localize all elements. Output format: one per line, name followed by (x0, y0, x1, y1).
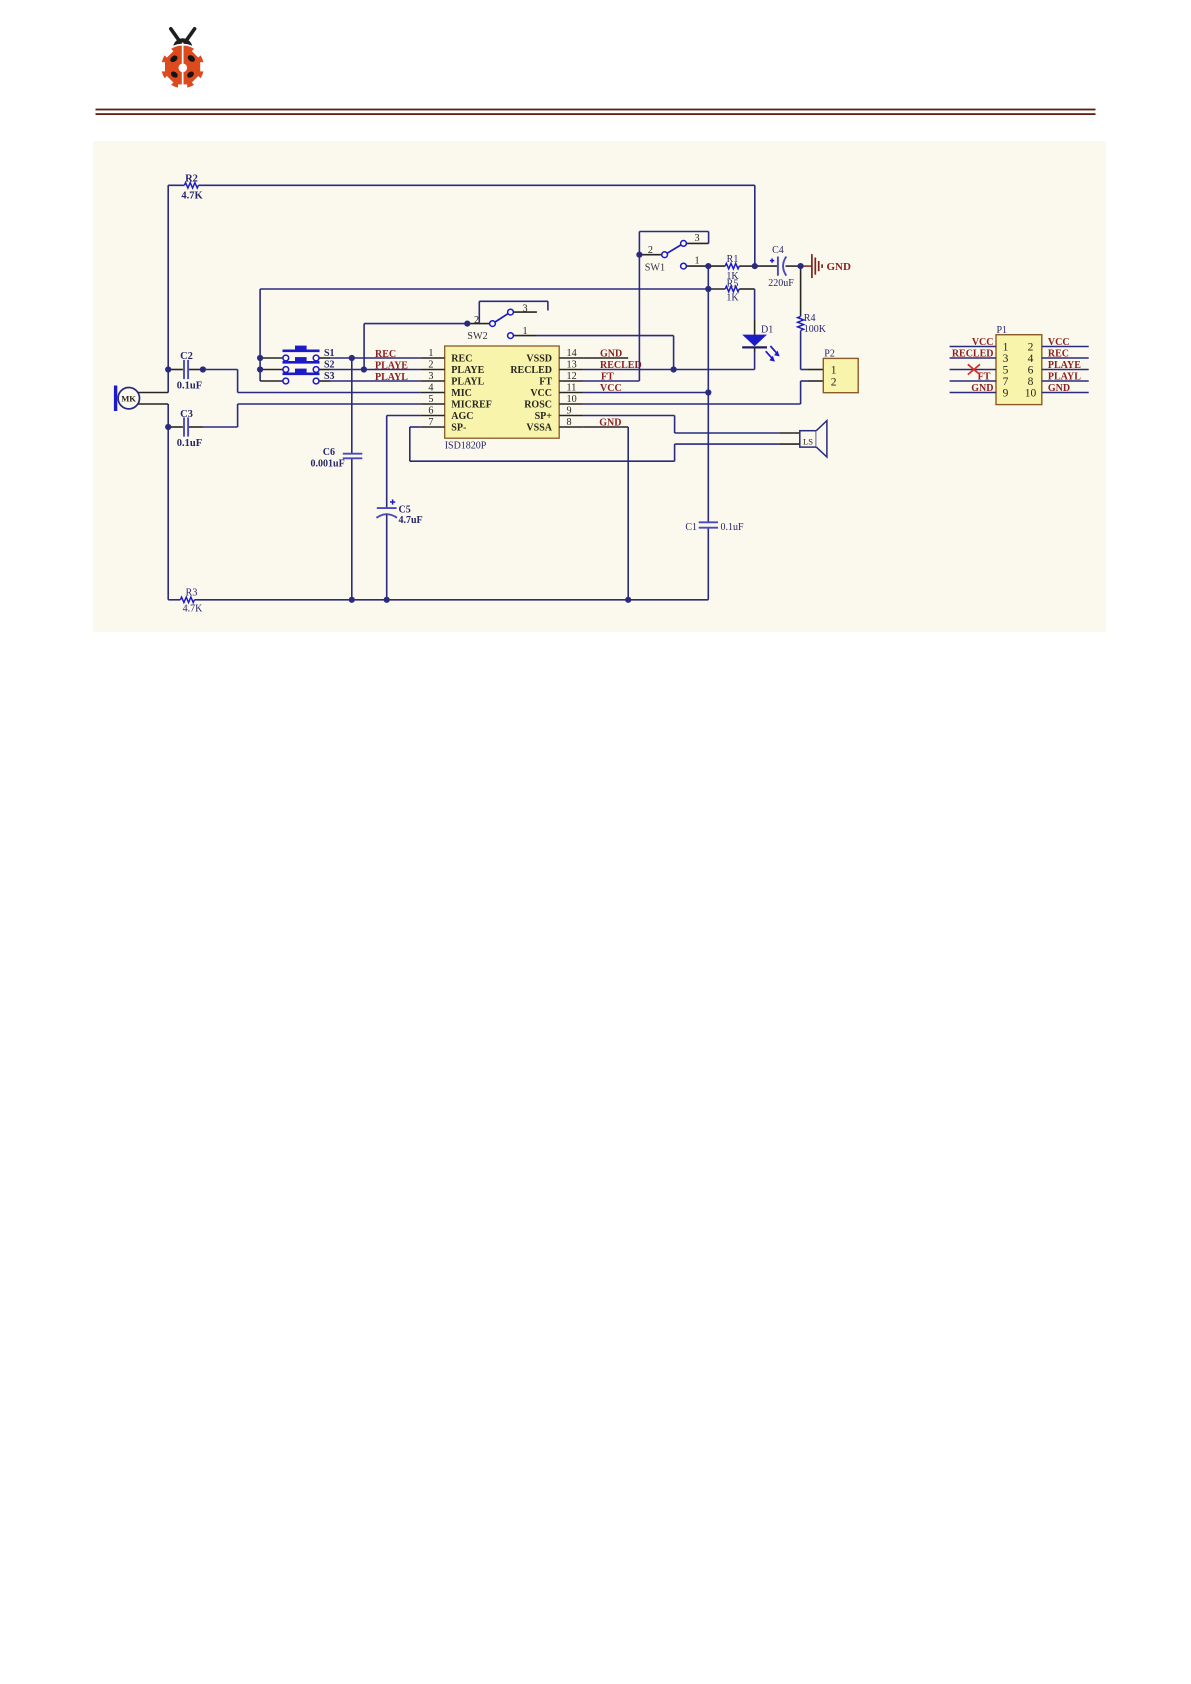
svg-text:6: 6 (428, 406, 433, 417)
svg-text:P1: P1 (997, 325, 1008, 336)
svg-text:R5: R5 (727, 279, 739, 290)
svg-text:7: 7 (428, 417, 433, 428)
svg-text:VSSA: VSSA (526, 423, 552, 434)
svg-text:C1: C1 (685, 522, 697, 533)
svg-text:1: 1 (1003, 341, 1009, 353)
svg-text:13: 13 (567, 360, 577, 371)
svg-text:SP-: SP- (451, 423, 466, 434)
svg-text:14: 14 (567, 348, 577, 359)
svg-text:7: 7 (1003, 376, 1009, 388)
svg-text:1: 1 (831, 364, 837, 376)
svg-text:R1: R1 (727, 254, 739, 265)
svg-text:11: 11 (567, 383, 577, 394)
svg-text:FT: FT (601, 372, 614, 383)
svg-text:10: 10 (567, 394, 577, 405)
svg-text:C5: C5 (399, 504, 411, 515)
svg-text:REC: REC (375, 349, 396, 360)
svg-text:MK: MK (121, 394, 136, 404)
svg-text:C6: C6 (323, 447, 335, 458)
svg-text:6: 6 (1028, 364, 1034, 376)
svg-text:MIC: MIC (451, 388, 472, 399)
svg-text:3: 3 (694, 233, 699, 244)
svg-text:2: 2 (831, 376, 837, 388)
svg-text:VCC: VCC (530, 388, 552, 399)
svg-text:3: 3 (1003, 353, 1009, 365)
svg-text:4.7uF: 4.7uF (399, 515, 423, 526)
svg-text:MICREF: MICREF (451, 400, 492, 411)
svg-text:LS: LS (803, 437, 813, 447)
svg-text:C2: C2 (180, 351, 193, 362)
svg-text:10: 10 (1025, 387, 1037, 399)
svg-text:3: 3 (522, 303, 527, 314)
svg-text:2: 2 (1028, 341, 1034, 353)
svg-text:0.1uF: 0.1uF (177, 381, 202, 392)
svg-text:P2: P2 (824, 349, 835, 360)
svg-text:220uF: 220uF (768, 278, 794, 289)
svg-text:2: 2 (428, 360, 433, 371)
svg-text:4.7K: 4.7K (183, 604, 204, 615)
svg-text:AGC: AGC (451, 411, 473, 422)
svg-text:5: 5 (428, 394, 433, 405)
svg-text:1: 1 (694, 256, 699, 267)
svg-text:0.1uF: 0.1uF (177, 438, 202, 449)
svg-text:100K: 100K (804, 324, 827, 335)
svg-text:PLAYL: PLAYL (451, 377, 484, 388)
svg-text:R2: R2 (185, 174, 198, 185)
svg-text:C3: C3 (180, 409, 193, 420)
svg-text:9: 9 (1003, 387, 1009, 399)
svg-text:9: 9 (567, 406, 572, 417)
svg-text:SW2: SW2 (467, 331, 487, 342)
svg-text:FT: FT (539, 377, 552, 388)
svg-text:GND: GND (827, 261, 852, 273)
svg-text:PLAYE: PLAYE (375, 360, 408, 371)
svg-text:3: 3 (428, 371, 433, 382)
svg-text:VCC: VCC (972, 337, 994, 348)
svg-text:5: 5 (1003, 364, 1009, 376)
svg-text:1: 1 (522, 326, 527, 337)
svg-text:GND: GND (600, 349, 622, 360)
svg-text:8: 8 (567, 417, 572, 428)
svg-text:ISD1820P: ISD1820P (445, 441, 487, 452)
svg-text:GND: GND (971, 383, 993, 394)
svg-text:R3: R3 (186, 587, 198, 598)
svg-text:GND: GND (1048, 383, 1070, 394)
svg-text:GND: GND (599, 418, 621, 429)
svg-text:ROSC: ROSC (524, 400, 552, 411)
svg-text:RECLED: RECLED (510, 365, 552, 376)
svg-text:2: 2 (474, 315, 479, 326)
svg-text:R4: R4 (804, 313, 816, 324)
svg-text:VCC: VCC (1048, 337, 1070, 348)
svg-text:4.7K: 4.7K (181, 191, 203, 202)
svg-text:SW1: SW1 (645, 262, 665, 273)
svg-text:PLAYE: PLAYE (451, 365, 484, 376)
svg-text:1K: 1K (726, 293, 739, 304)
svg-text:C4: C4 (772, 245, 784, 256)
svg-text:0.1uF: 0.1uF (721, 522, 745, 533)
svg-text:4: 4 (1028, 353, 1034, 365)
svg-text:REC: REC (451, 354, 472, 365)
svg-text:RECLED: RECLED (952, 349, 994, 360)
svg-text:RECLED: RECLED (600, 360, 642, 371)
svg-text:VSSD: VSSD (526, 354, 552, 365)
svg-text:D1: D1 (761, 324, 773, 335)
svg-text:REC: REC (1048, 349, 1069, 360)
svg-text:PLAYL: PLAYL (375, 372, 408, 383)
svg-text:SP+: SP+ (535, 411, 553, 422)
svg-text:0.001uF: 0.001uF (311, 458, 345, 469)
svg-text:PLAYE: PLAYE (1048, 360, 1081, 371)
svg-text:PLAYL: PLAYL (1048, 372, 1081, 383)
svg-text:8: 8 (1028, 376, 1034, 388)
svg-text:VCC: VCC (600, 383, 622, 394)
svg-text:1: 1 (428, 348, 433, 359)
svg-text:12: 12 (567, 371, 577, 382)
svg-text:4: 4 (428, 383, 433, 394)
svg-text:2: 2 (648, 245, 653, 256)
